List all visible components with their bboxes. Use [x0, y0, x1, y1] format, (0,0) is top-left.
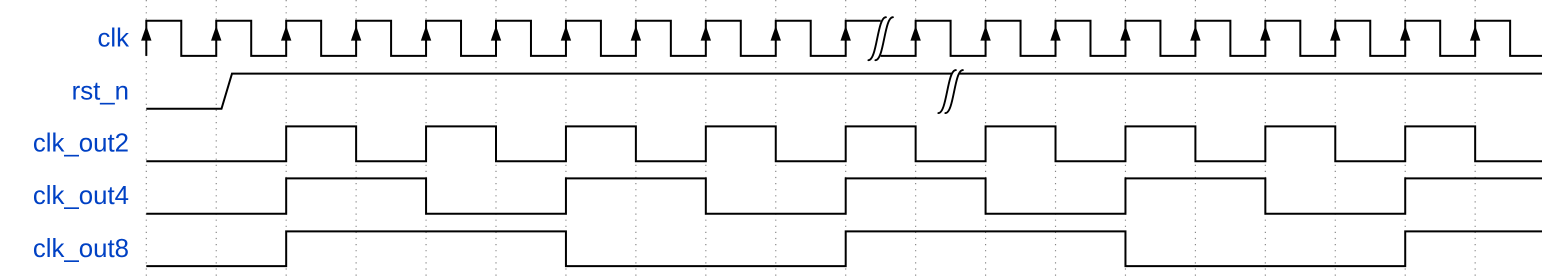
- svg-text:clk: clk: [97, 25, 129, 53]
- svg-text:rst_n: rst_n: [72, 77, 129, 105]
- clk gap: [868, 17, 893, 60]
- svg-text:clk_out2: clk_out2: [33, 130, 129, 158]
- svg-text:clk_out4: clk_out4: [33, 182, 129, 210]
- clk_out4 waveform: [146, 178, 1542, 213]
- clk_out2 waveform: [146, 126, 1542, 161]
- rst_n waveform: [146, 74, 1542, 109]
- clk waveform: [146, 21, 1542, 56]
- clk_out8 waveform: [146, 231, 1542, 266]
- svg-text:clk_out8: clk_out8: [33, 235, 129, 263]
- clk rising-edge arrows: [141, 26, 1480, 41]
- rst_n gap: [938, 70, 963, 113]
